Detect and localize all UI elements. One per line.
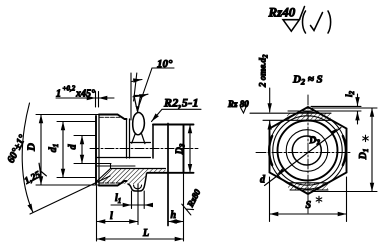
groove profile barrel neck (134, 96, 141, 107)
hatch top boundary (111, 168, 166, 170)
2 holes d2 dimension (269, 88, 271, 112)
head right face (183, 125, 185, 173)
inner hole line lower (97, 157, 151, 159)
dimension S (269, 177, 271, 222)
hexagon (270, 107, 347, 194)
bottom groove U outline (128, 173, 147, 191)
inner hole line upper (130, 142, 151, 144)
bottom corner hatch (288, 183, 328, 190)
chamfer arc bundle right flat (343, 136, 346, 165)
groove profile egg (133, 113, 145, 135)
svg-text:10°: 10° (157, 58, 173, 70)
extension left face down (96, 186, 98, 241)
svg-text:x45°: x45° (75, 89, 95, 100)
groove wall verticals (126, 119, 128, 158)
vertical centerline (307, 95, 309, 213)
dimension h (168, 221, 184, 223)
thread root thin bottom (100, 182, 124, 184)
hole circle bold (292, 136, 321, 165)
left face (95, 116, 97, 184)
groove profile legs (132, 134, 145, 144)
thread outline top (99, 115, 127, 120)
dimension l (97, 221, 139, 223)
internal bore line (97, 165, 136, 167)
Rz80 roughness right of head (179, 186, 202, 215)
roughness triangle symbol (283, 7, 305, 32)
svg-text:D: D (26, 143, 38, 152)
svg-text:l: l (110, 211, 113, 222)
svg-text:+0,2: +0,2 (63, 85, 76, 93)
top hole lines (250, 112, 331, 114)
head left corner vertical (152, 125, 154, 159)
10 degree construction vertical (130, 73, 132, 120)
cone transition edge (110, 164, 112, 169)
parenthesis check (303, 11, 306, 33)
axis centerline left view (90, 148, 198, 150)
10 degree leader (139, 68, 174, 107)
svg-text:h: h (171, 210, 177, 221)
dimension d (74, 135, 96, 137)
R2,5-1 leader (152, 109, 202, 121)
svg-text:R2,5-1: R2,5-1 (163, 96, 199, 110)
dimension D (36, 114, 99, 116)
bottom corner chord (290, 189, 328, 191)
10 degree leader arrow (136, 106, 140, 113)
top corner chord (288, 110, 361, 112)
collar circle bold (278, 121, 338, 181)
chamfer arc bundle left flat (269, 136, 272, 165)
top corner hatch (287, 113, 331, 120)
10 degree arc arrows (132, 80, 142, 82)
cone circle thin (286, 130, 328, 172)
section hatch main band (97, 169, 166, 184)
horizontal centerline (256, 152, 352, 154)
cone roughness leader line (30, 176, 110, 214)
right face extension down (183, 173, 185, 241)
svg-text:D2 ≈ S: D2 ≈ S (292, 74, 323, 87)
dimension L (97, 238, 184, 240)
10 degree slant line (134, 73, 137, 101)
dimension l2 (311, 105, 361, 107)
svg-text:Rz40: Rz40 (268, 5, 296, 20)
svg-text:S: S (306, 200, 312, 211)
svg-text:1: 1 (56, 89, 61, 100)
head hex boundary (167, 124, 169, 226)
cone wall section (97, 169, 111, 182)
chamfer dimension 1x45 (56, 97, 114, 99)
thread circle thin (273, 116, 342, 185)
thread root thin top (100, 116, 124, 118)
svg-text:L: L (142, 228, 149, 239)
l1 extension lines (131, 191, 133, 209)
chamfer circle D2 (269, 112, 346, 189)
head bottom edge (148, 172, 194, 174)
dimension D3 (189, 125, 191, 173)
dimension d1 (57, 121, 96, 123)
head top edge (153, 124, 194, 126)
dimension l1 (111, 204, 152, 206)
diagonal d dimension line (265, 128, 342, 186)
thread outline bottom (99, 181, 127, 186)
dimension D1 (312, 107, 377, 109)
diagonal arrows (277, 168, 285, 174)
bottom groove inner curl (134, 185, 142, 189)
section hatch thread band (97, 169, 111, 184)
60 degree arc (22, 103, 33, 213)
bottom hole lines (288, 182, 329, 184)
1,25 roughness mark (21, 163, 47, 187)
chamfer line left end (98, 115, 100, 186)
